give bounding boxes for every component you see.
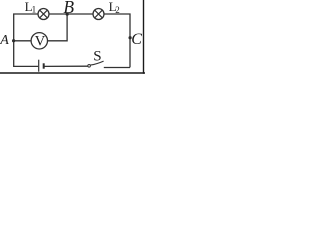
switch S pivot circle xyxy=(88,65,91,68)
lamp L1 xyxy=(38,9,49,20)
switch S blade xyxy=(90,61,103,65)
svg-text:S: S xyxy=(93,49,101,65)
battery cell: long plate xyxy=(38,60,40,72)
wire top-left: corner A-column to lamp L1 xyxy=(14,14,38,40)
node C junction dot xyxy=(129,36,132,39)
svg-text:2: 2 xyxy=(115,5,120,15)
voltmeter V xyxy=(31,33,47,49)
lamp L2 xyxy=(93,9,104,20)
node B junction dot xyxy=(66,13,69,16)
wire battery to switch xyxy=(44,65,87,67)
wire voltmeter branch: A to voltmeter xyxy=(14,40,31,42)
wire voltmeter to corner up to B xyxy=(48,14,67,41)
svg-text:C: C xyxy=(131,31,142,48)
svg-text:1: 1 xyxy=(32,6,37,16)
node A junction dot xyxy=(12,39,15,42)
wire left vertical A down to bottom xyxy=(14,40,39,66)
svg-text:V: V xyxy=(35,34,46,50)
wire L1 to B to lamp L2 xyxy=(49,13,93,15)
battery cell: short thick plate xyxy=(43,63,45,68)
wire L2 to top-right corner down to C xyxy=(104,14,130,67)
wire switch to bottom-right corner xyxy=(104,67,130,69)
svg-text:B: B xyxy=(63,0,74,17)
svg-text:A: A xyxy=(0,33,9,48)
